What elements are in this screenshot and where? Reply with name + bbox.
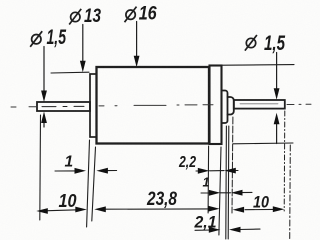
- leader dia 1,5 right lower: [276, 121, 278, 144]
- arrowhead 2,1 leftward: [229, 227, 241, 233]
- left flange: [90, 74, 97, 137]
- leader dia 13: [82, 25, 84, 64]
- dia symbol 1,5 left: [32, 35, 41, 44]
- arrowhead 2,1 rightward: [209, 227, 221, 233]
- extension line flange left: [87, 140, 90, 227]
- rear end cap: [210, 66, 222, 145]
- left shaft center marks: [42, 105, 84, 107]
- arrowhead 2,2 leftward: [224, 168, 236, 174]
- extension line flange top: [51, 71, 89, 74]
- extension line pair b: [227, 126, 230, 239]
- dia symbol 13: [71, 12, 80, 21]
- arrowhead 1R leftward: [231, 190, 243, 196]
- dimension line 1 left: [55, 170, 117, 173]
- center line: [11, 104, 311, 107]
- extension line cap top right: [210, 64, 294, 67]
- arrowhead dia13 down: [80, 61, 86, 73]
- leader dia 1,5 left upper: [43, 47, 45, 95]
- arrowhead 1L left: [96, 168, 108, 174]
- right shaft inner line: [240, 103, 278, 105]
- arrowhead dia1,5L up: [41, 112, 47, 124]
- rear boss 1: [222, 91, 228, 124]
- right shaft: [234, 100, 285, 109]
- extension line shaft right end dashed: [283, 111, 286, 211]
- left shaft: [37, 102, 90, 111]
- leader dia 16: [136, 22, 138, 59]
- arrowhead 1L right: [75, 168, 87, 174]
- dimension line 23,8: [105, 208, 210, 210]
- arrowhead 10R right: [273, 206, 285, 212]
- leader dia 1,5 left lower: [43, 119, 45, 127]
- dimension line 10 right: [245, 208, 273, 210]
- arrowhead 23,8 right: [208, 206, 220, 212]
- arrowhead 10L right: [75, 207, 87, 213]
- arrowhead 1R rightward: [209, 190, 221, 196]
- arrowhead dia1,5L down: [41, 91, 47, 103]
- extension line shaft left end: [39, 115, 42, 220]
- leader dia 1,5 right upper: [276, 53, 278, 92]
- dimension line 10 left: [44, 210, 78, 211]
- extension line body bottom right: [233, 142, 293, 145]
- center line vertical right dash-dot: [289, 145, 292, 240]
- arrowhead 2,2 rightward: [198, 168, 210, 174]
- extension line boss2 right dashed: [231, 117, 234, 213]
- arrowhead 23,8 left: [94, 206, 106, 212]
- extension line body left: [92, 147, 96, 221]
- dia symbol 1,5 right: [246, 38, 255, 47]
- dia symbol 16: [126, 10, 135, 19]
- dimension line 2,2: [196, 170, 238, 173]
- dimension line 2,1: [195, 229, 260, 230]
- rear boss 2: [228, 97, 234, 115]
- arrowhead dia16 down: [134, 56, 140, 67]
- extension line cap right: [219, 147, 221, 235]
- arrowhead dia1,5R down: [274, 88, 280, 100]
- motor body outline: [97, 67, 210, 144]
- extension line body right: [207, 146, 210, 213]
- arrowhead 10L left: [36, 208, 48, 214]
- arrowhead 10R left: [233, 207, 245, 213]
- dimension line 1 right: [201, 191, 252, 194]
- extension line pair a: [225, 126, 228, 239]
- arrowhead dia1,5R up: [274, 113, 280, 125]
